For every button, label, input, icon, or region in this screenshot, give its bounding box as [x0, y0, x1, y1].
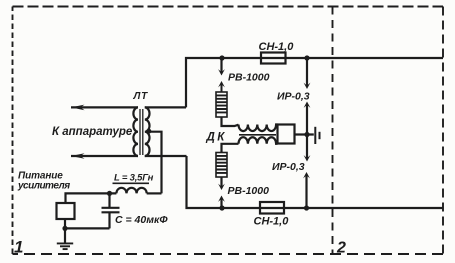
svg-text:ЛТ: ЛТ: [133, 91, 149, 102]
svg-text:ДК: ДК: [206, 131, 227, 143]
svg-text:К аппаратуре: К аппаратуре: [52, 126, 133, 138]
svg-text:РВ-1000: РВ-1000: [228, 72, 270, 84]
svg-text:1: 1: [14, 237, 23, 256]
svg-text:СН-1,0: СН-1,0: [259, 41, 295, 53]
svg-text:СН-1,0: СН-1,0: [254, 215, 290, 227]
svg-text:усилителя: усилителя: [17, 181, 70, 192]
svg-text:РВ-1000: РВ-1000: [228, 185, 270, 197]
svg-text:ИР-0,3: ИР-0,3: [277, 91, 310, 103]
svg-text:2: 2: [336, 239, 346, 256]
svg-text:С = 40мкФ: С = 40мкФ: [115, 214, 168, 226]
svg-text:L = 3,5Гн: L = 3,5Гн: [114, 173, 154, 184]
svg-text:ИР-0,3: ИР-0,3: [272, 161, 305, 173]
